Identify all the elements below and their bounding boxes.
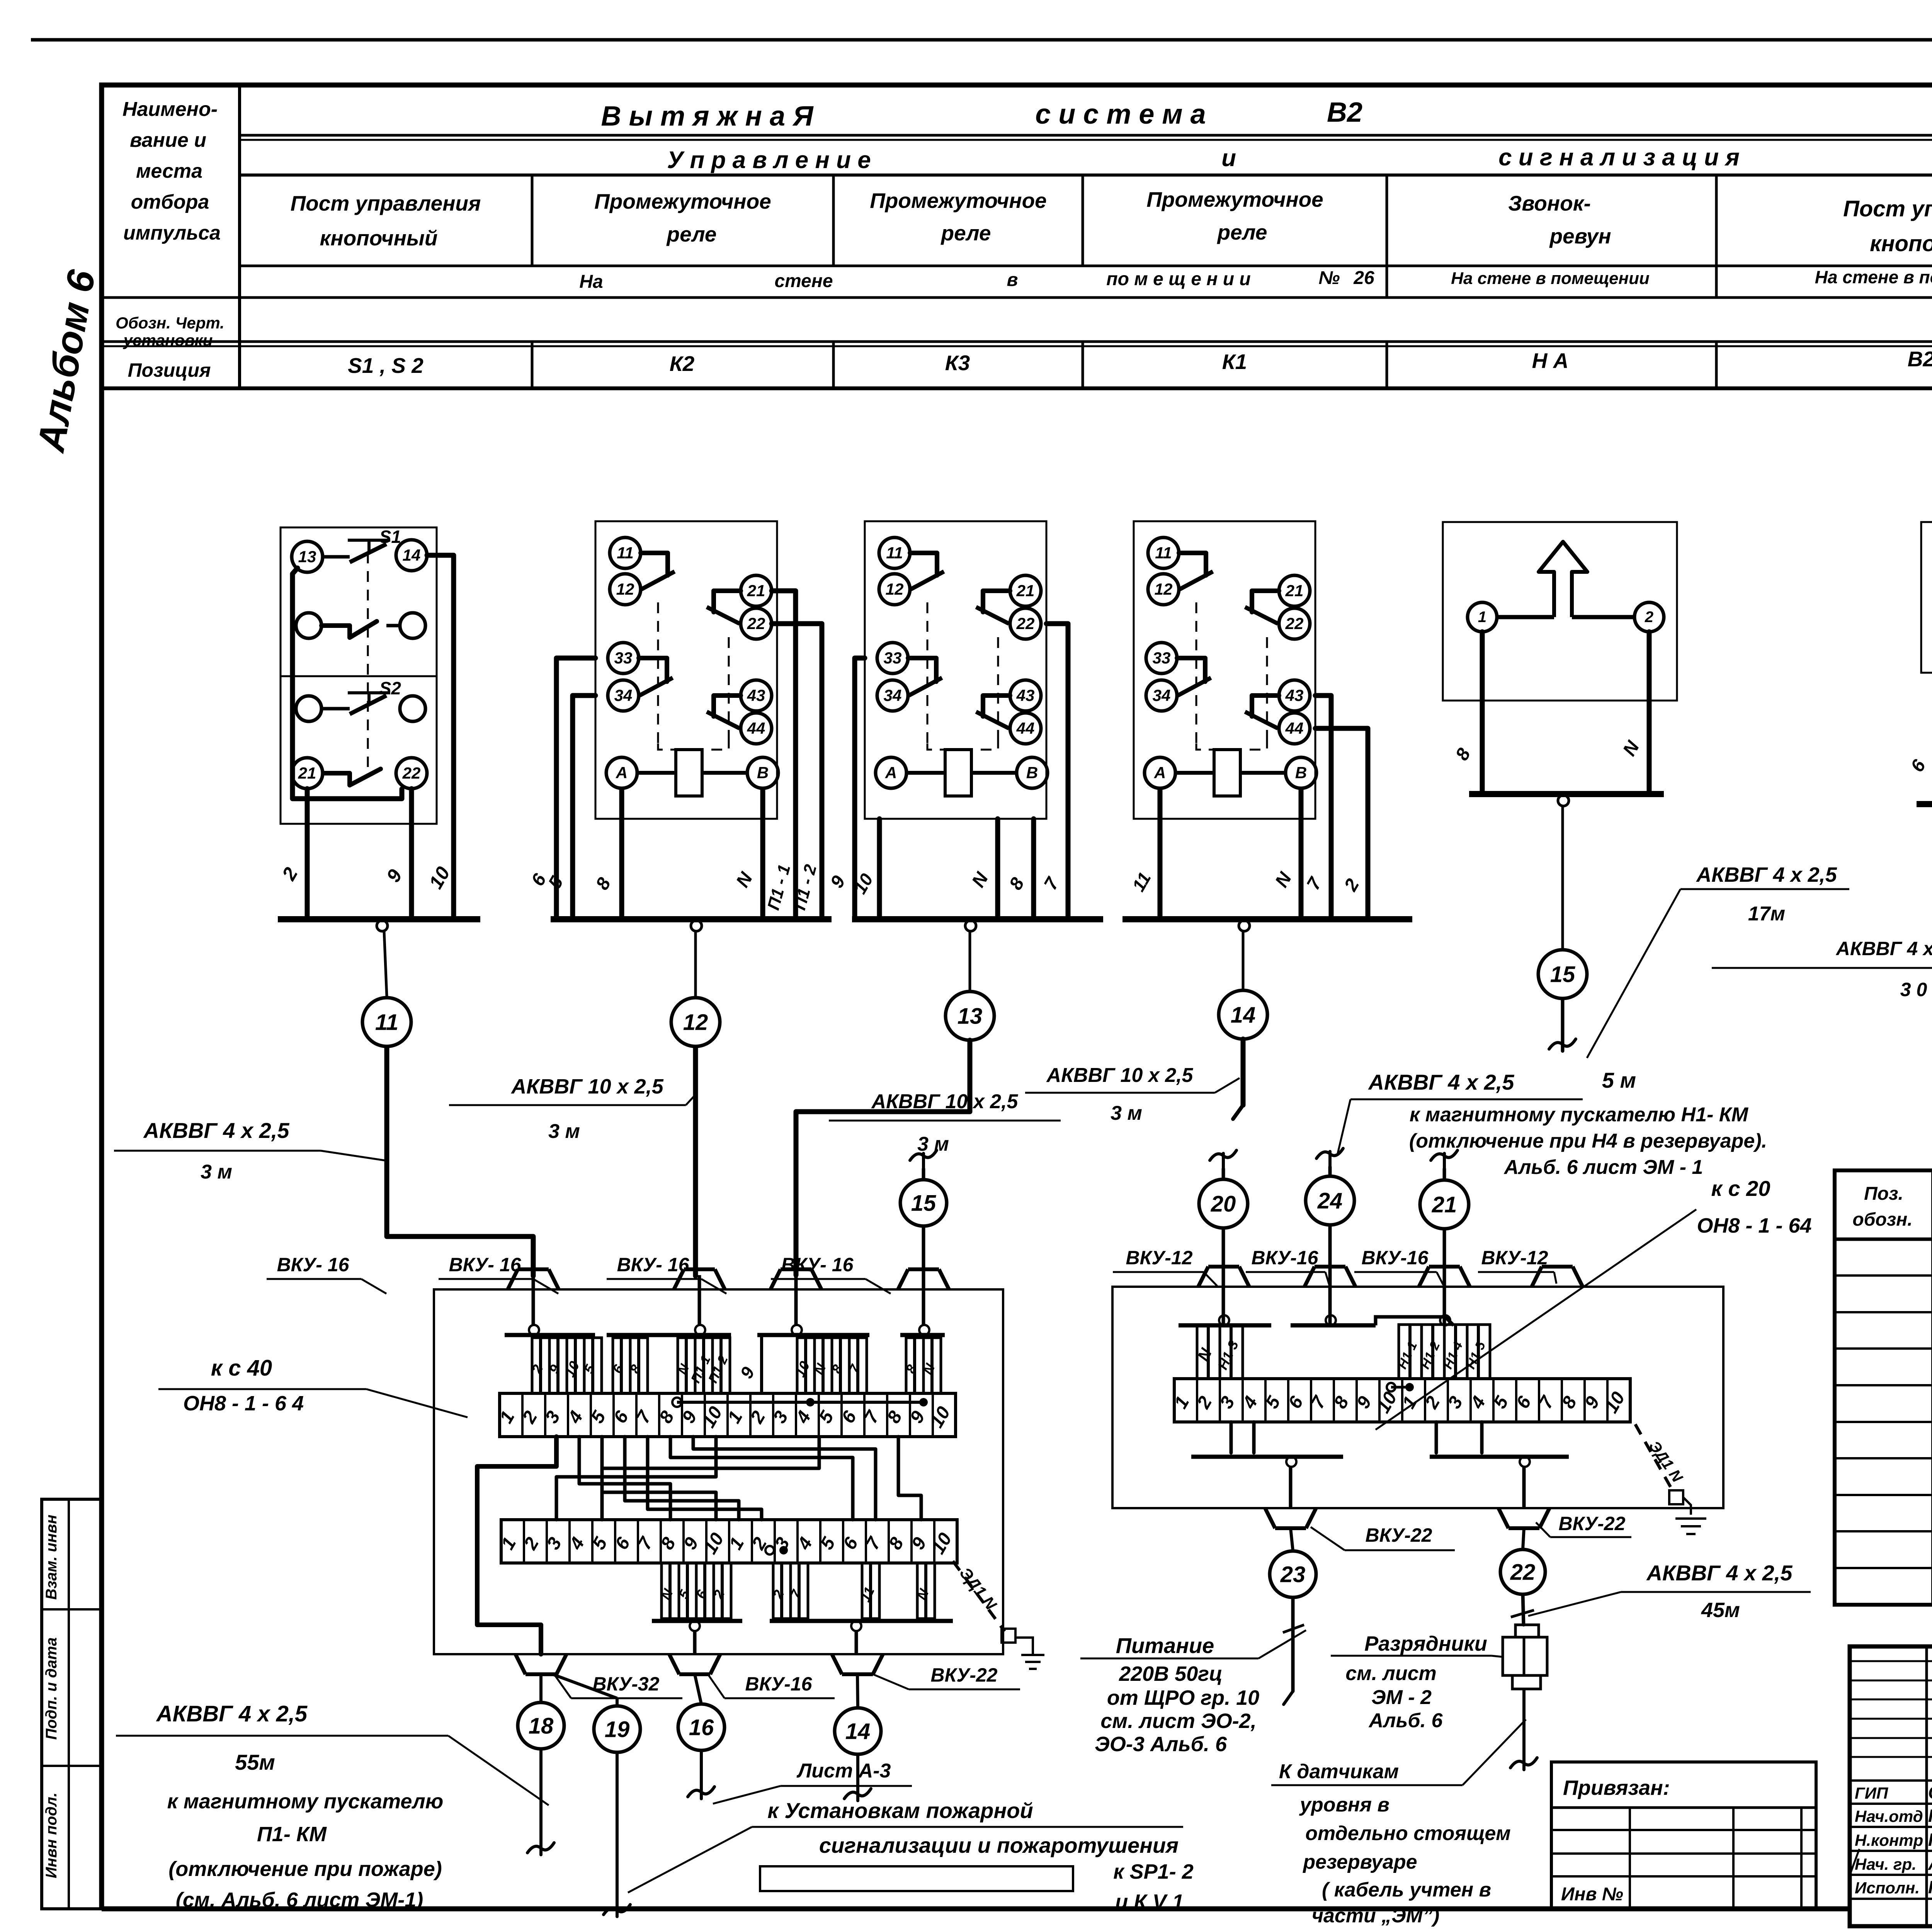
- svg-text:Разрядники: Разрядники: [1364, 1632, 1487, 1655]
- svg-text:АКВВГ 10 х 2,5: АКВВГ 10 х 2,5: [1046, 1064, 1194, 1087]
- svg-text:по м е щ е н и и: по м е щ е н и и: [1106, 269, 1250, 289]
- svg-text:3 м: 3 м: [1111, 1102, 1142, 1124]
- busbar 3: [852, 916, 1103, 922]
- svg-text:220В 50гц: 220В 50гц: [1119, 1662, 1223, 1685]
- relay K2 box: [595, 521, 777, 819]
- svg-text:11: 11: [375, 1010, 398, 1035]
- jumper dots in strip2: [765, 1546, 774, 1554]
- cable 21 top circle: [1431, 1150, 1458, 1169]
- svg-text:сигнализации и пожаротушения: сигнализации и пожаротушения: [819, 1833, 1179, 1857]
- svg-text:Н А: Н А: [1532, 349, 1569, 372]
- svg-text:22: 22: [1510, 1560, 1536, 1585]
- svg-text:ГИП: ГИП: [1855, 1784, 1888, 1802]
- svg-text:На стене в помещении № 14: На стене в помещении № 14: [1815, 267, 1932, 287]
- cable circles 18,19 under VKU-32: [539, 1674, 543, 1702]
- svg-text:АКВВГ 4 х 2,5: АКВВГ 4 х 2,5: [1368, 1070, 1515, 1094]
- svg-text:к SP1- 2: к SP1- 2: [1113, 1860, 1193, 1883]
- svg-text:Поз.: Поз.: [1864, 1184, 1903, 1204]
- svg-text:К датчикам: К датчикам: [1279, 1760, 1399, 1783]
- svg-text:В: В: [1295, 764, 1307, 782]
- svg-text:Альб. 6: Альб. 6: [1368, 1709, 1443, 1732]
- svg-text:Нач. гр.: Нач. гр.: [1855, 1855, 1917, 1873]
- relay K3 box: [865, 521, 1046, 819]
- top table grid: [102, 386, 1932, 390]
- svg-text:20: 20: [1211, 1191, 1236, 1216]
- K3 wires to busbar: [855, 658, 865, 919]
- svg-text:22: 22: [402, 764, 421, 782]
- svg-text:А: А: [616, 764, 628, 782]
- cable 13 circle: [969, 931, 971, 992]
- KC40 bottom funnels: [515, 1654, 566, 1674]
- svg-text:АКВВГ 4 х 2,5: АКВВГ 4 х 2,5: [143, 1118, 290, 1143]
- svg-text:части „ЭМ”): части „ЭМ”): [1312, 1905, 1440, 1927]
- svg-text:реле: реле: [1217, 220, 1267, 244]
- svg-text:Позиция: Позиция: [128, 359, 211, 381]
- svg-text:ВКУ-12: ВКУ-12: [1126, 1247, 1193, 1269]
- KC20 dashed ground: [1635, 1424, 1673, 1492]
- svg-text:13: 13: [957, 1003, 983, 1029]
- KC40 top funnels (VKU-16 x4): [508, 1269, 559, 1289]
- KC20 bottom funnels: [1265, 1508, 1316, 1528]
- svg-text:Привязан:: Привязан:: [1563, 1776, 1670, 1799]
- svg-text:23: 23: [1280, 1562, 1306, 1587]
- svg-text:ВКУ-16: ВКУ-16: [1362, 1247, 1429, 1269]
- svg-text:21: 21: [747, 582, 765, 600]
- svg-text:АКВВГ 10 х 2,5: АКВВГ 10 х 2,5: [871, 1090, 1019, 1113]
- svg-text:отбора: отбора: [131, 191, 209, 213]
- svg-text:ВКУ- 16: ВКУ- 16: [449, 1254, 522, 1276]
- svg-text:В ы т я ж н а Я: В ы т я ж н а Я: [601, 101, 814, 132]
- svg-text:Питание: Питание: [1116, 1633, 1214, 1658]
- svg-text:АКВВГ 4 х 2,5: АКВВГ 4 х 2,5: [156, 1701, 308, 1726]
- svg-text:А: А: [1154, 764, 1166, 782]
- svg-text:Пост управления: Пост управления: [291, 191, 481, 215]
- cable 15 circle above KC40 funnel4: [910, 1150, 937, 1169]
- KC40 junction box: [434, 1289, 1003, 1654]
- parts list table: [1835, 1170, 1932, 1605]
- KC20 funnels: [1198, 1267, 1249, 1287]
- busbar 4: [1122, 916, 1412, 922]
- cable 23 circle: [1291, 1528, 1293, 1551]
- svg-text:с и с т е м а: с и с т е м а: [1035, 99, 1206, 130]
- cable 15 circle: [1561, 806, 1564, 950]
- svg-text:33: 33: [1153, 649, 1171, 667]
- svg-text:Инвн подл.: Инвн подл.: [43, 1793, 60, 1878]
- internal jumper wire: [293, 568, 402, 799]
- K2 wires to busbar: [556, 658, 595, 919]
- privyazan table: [1551, 1762, 1816, 1909]
- cable 20 top circle: [1210, 1150, 1236, 1169]
- svg-text:см. лист ЭО-2,: см. лист ЭО-2,: [1100, 1709, 1256, 1733]
- svg-text:установки: установки: [123, 331, 213, 349]
- svg-text:ВКУ-22: ВКУ-22: [1366, 1524, 1432, 1546]
- svg-text:ВКУ- 16: ВКУ- 16: [781, 1254, 854, 1276]
- svg-text:3 0 м: 3 0 м: [1900, 979, 1932, 1000]
- svg-text:43: 43: [747, 686, 765, 704]
- svg-text:№: №: [1318, 268, 1340, 288]
- busbar 1: [278, 916, 480, 922]
- svg-text:11: 11: [1155, 544, 1172, 562]
- svg-text:кнопочный: кнопочный: [320, 226, 438, 250]
- cable 13 wire to KC40: [796, 1040, 970, 1275]
- knot wires between strips: [477, 1437, 556, 1654]
- svg-text:( кабель учтен в: ( кабель учтен в: [1322, 1879, 1491, 1901]
- svg-text:18: 18: [529, 1713, 554, 1738]
- KC20 mini busbars: [1179, 1323, 1271, 1328]
- KC20 lower wires: [1230, 1422, 1233, 1453]
- S1 lower contact: [296, 613, 321, 638]
- svg-text:На: На: [579, 272, 603, 292]
- svg-text:14: 14: [1231, 1002, 1256, 1027]
- push-button station S1,S2 box: [281, 527, 437, 824]
- svg-text:обозн.: обозн.: [1852, 1209, 1912, 1230]
- svg-text:21: 21: [1285, 582, 1304, 600]
- svg-text:Промежуточное: Промежуточное: [870, 189, 1047, 213]
- title block: [1850, 1646, 1932, 1926]
- svg-text:стене: стене: [774, 271, 833, 291]
- svg-text:S1 , S 2: S1 , S 2: [348, 354, 423, 378]
- svg-text:ЭМ - 2: ЭМ - 2: [1371, 1686, 1432, 1709]
- relay K1 box: [1134, 521, 1315, 819]
- svg-text:Взам. инвн: Взам. инвн: [43, 1515, 60, 1600]
- tags below strip2: [662, 1563, 679, 1619]
- svg-text:П1- КМ: П1- КМ: [257, 1823, 327, 1846]
- svg-text:24: 24: [1317, 1188, 1343, 1213]
- svg-text:2: 2: [1645, 609, 1653, 626]
- svg-text:уровня в: уровня в: [1299, 1794, 1389, 1816]
- mini busbars above tags: [505, 1333, 595, 1337]
- left bottom strip: [42, 1499, 102, 1909]
- svg-text:44: 44: [1016, 719, 1035, 737]
- svg-text:места: места: [136, 160, 202, 182]
- wire 9: [409, 789, 414, 919]
- cable 11 circle: [384, 931, 387, 996]
- svg-text:3 м: 3 м: [917, 1133, 949, 1155]
- strip 1 (upper): [500, 1393, 956, 1437]
- svg-text:реле: реле: [940, 221, 991, 245]
- svg-text:45м: 45м: [1701, 1599, 1740, 1622]
- strip 2 (lower): [501, 1520, 957, 1563]
- svg-text:19: 19: [605, 1717, 630, 1742]
- svg-text:На стене в помещении: На стене в помещении: [1451, 269, 1650, 288]
- cable 24 circle: [1316, 1148, 1343, 1167]
- svg-text:Промежуточное: Промежуточное: [1146, 187, 1323, 211]
- bell (zvonok-revun) box: [1443, 522, 1677, 701]
- svg-text:34: 34: [1153, 686, 1171, 704]
- svg-text:отдельно стоящем: отдельно стоящем: [1305, 1822, 1510, 1845]
- svg-text:Самитов: Самитов: [1928, 1782, 1932, 1803]
- svg-text:S2: S2: [379, 678, 401, 698]
- svg-text:43: 43: [1285, 686, 1304, 704]
- svg-text:в: в: [1007, 270, 1018, 290]
- svg-text:5 м: 5 м: [1602, 1068, 1636, 1092]
- cable 22 circle: [1523, 1528, 1524, 1549]
- svg-text:3 м: 3 м: [201, 1161, 232, 1183]
- svg-text:21: 21: [1016, 582, 1035, 600]
- svg-text:ВКУ-16: ВКУ-16: [1252, 1247, 1319, 1269]
- tags above strip1: [532, 1338, 549, 1393]
- cable 11 wire to KC40: [387, 1048, 533, 1276]
- svg-text:и: и: [1221, 145, 1236, 172]
- svg-text:резервуаре: резервуаре: [1302, 1851, 1417, 1873]
- svg-text:от ЩРО гр. 10: от ЩРО гр. 10: [1107, 1686, 1259, 1709]
- switch S1: [292, 541, 323, 572]
- svg-text:К1: К1: [1222, 350, 1247, 374]
- svg-text:(отключение при Н4 в резер: (отключение при Н4 в резервуаре).: [1409, 1130, 1767, 1152]
- svg-text:21: 21: [1432, 1192, 1457, 1217]
- svg-text:55м: 55м: [235, 1750, 275, 1774]
- svg-text:11: 11: [617, 544, 634, 562]
- svg-text:22: 22: [1285, 614, 1304, 633]
- svg-text:АКВВГ 10 х 2,5: АКВВГ 10 х 2,5: [510, 1075, 663, 1098]
- svg-text:12: 12: [1155, 580, 1173, 598]
- svg-text:S1: S1: [379, 527, 401, 547]
- svg-text:В2 - S3: В2 - S3: [1908, 347, 1932, 371]
- cable 12 circle: [694, 931, 697, 996]
- svg-text:к с 40: к с 40: [211, 1355, 272, 1381]
- jumper dots KC20 strip: [1387, 1383, 1395, 1391]
- svg-text:Звонок-: Звонок-: [1508, 191, 1591, 215]
- svg-text:12: 12: [886, 580, 904, 598]
- KC20 tags above strip: [1197, 1325, 1220, 1379]
- svg-text:к Установкам пожарной: к Установкам пожарной: [767, 1798, 1033, 1823]
- svg-text:22: 22: [747, 614, 765, 633]
- svg-text:ОН8 - 1 - 64: ОН8 - 1 - 64: [1697, 1214, 1811, 1237]
- svg-text:(отключение при пожаре): (отключение при пожаре): [168, 1857, 442, 1881]
- svg-text:кнопочный: кнопочный: [1870, 231, 1932, 256]
- svg-text:К2: К2: [670, 352, 695, 376]
- svg-text:12: 12: [683, 1010, 708, 1035]
- svg-text:см. лист: см. лист: [1345, 1662, 1437, 1685]
- svg-text:33: 33: [884, 649, 902, 667]
- svg-text:14: 14: [845, 1719, 871, 1744]
- svg-text:16: 16: [689, 1715, 714, 1740]
- dashed ground from strip2 end: [953, 1561, 1005, 1631]
- svg-text:ВКУ-16: ВКУ-16: [745, 1673, 813, 1695]
- svg-text:вание и: вание и: [130, 129, 206, 151]
- svg-text:26: 26: [1353, 268, 1374, 288]
- svg-text:Инв №: Инв №: [1561, 1884, 1623, 1905]
- svg-text:В: В: [1026, 764, 1038, 782]
- svg-text:ЭО-3 Альб. 6: ЭО-3 Альб. 6: [1095, 1733, 1227, 1756]
- svg-text:44: 44: [747, 719, 765, 737]
- svg-text:ВКУ-12: ВКУ-12: [1481, 1247, 1548, 1269]
- svg-text:АКВВГ 4 х 2,5: АКВВГ 4 х 2,5: [1696, 863, 1837, 886]
- svg-text:43: 43: [1016, 686, 1035, 704]
- svg-text:15: 15: [1550, 962, 1575, 987]
- funnel wires into busbars: [532, 1275, 535, 1325]
- svg-text:21: 21: [298, 764, 316, 782]
- svg-text:Альб. 6 лист ЭМ - 1: Альб. 6 лист ЭМ - 1: [1503, 1156, 1703, 1179]
- svg-text:Герасимова: Герасимова: [1928, 1877, 1932, 1897]
- svg-text:3 м: 3 м: [548, 1120, 580, 1143]
- wire 10: [427, 555, 454, 919]
- svg-text:1: 1: [1478, 609, 1486, 626]
- svg-text:Наимено-: Наимено-: [122, 98, 218, 121]
- svg-text:ревун: ревун: [1549, 224, 1611, 248]
- svg-text:и К V 1: и К V 1: [1115, 1890, 1184, 1913]
- svg-text:к магнитному пускателю: к магнитному пускателю: [167, 1790, 444, 1813]
- svg-text:В: В: [757, 764, 769, 782]
- svg-text:15: 15: [911, 1190, 936, 1216]
- bell symbol: [1539, 542, 1587, 617]
- svg-text:В2: В2: [1327, 97, 1362, 128]
- svg-text:44: 44: [1285, 719, 1304, 737]
- svg-text:ВКУ-22: ВКУ-22: [931, 1664, 998, 1686]
- svg-text:ВКУ- 16: ВКУ- 16: [617, 1254, 690, 1276]
- svg-text:Обозн. Черт.: Обозн. Черт.: [116, 314, 224, 332]
- svg-text:Промежуточное: Промежуточное: [594, 189, 771, 213]
- svg-text:12: 12: [616, 580, 634, 598]
- svg-text:А: А: [885, 764, 897, 782]
- busbar B2-S3: [1917, 801, 1932, 807]
- svg-text:34: 34: [884, 686, 902, 704]
- mini busbars below strip2: [652, 1619, 742, 1623]
- jumper in strip1: [677, 1401, 923, 1404]
- svg-text:17м: 17м: [1748, 903, 1785, 925]
- svg-text:импульса: импульса: [123, 222, 221, 244]
- svg-text:ВКУ- 16: ВКУ- 16: [277, 1254, 350, 1276]
- switch box B2-S3: [1921, 522, 1932, 673]
- svg-text:11: 11: [886, 544, 903, 562]
- svg-text:Антохина: Антохина: [1928, 1854, 1932, 1874]
- cable 12 wire to KC40: [693, 1048, 698, 1276]
- svg-text:(см. Альб. 6 лист ЭМ-1): (см. Альб. 6 лист ЭМ-1): [176, 1888, 423, 1912]
- svg-text:Лист А-3: Лист А-3: [796, 1760, 891, 1782]
- svg-text:34: 34: [614, 686, 633, 704]
- svg-text:с и г н а л и з а ц и я: с и г н а л и з а ц и я: [1498, 144, 1740, 171]
- svg-text:Н.контр: Н.контр: [1855, 1831, 1923, 1849]
- KC20 junction box: [1112, 1287, 1723, 1508]
- svg-text:Козлов: Козлов: [1928, 1806, 1932, 1826]
- svg-text:14: 14: [403, 546, 421, 564]
- cable 14 circle: [1242, 931, 1245, 990]
- switch S2: [296, 696, 321, 721]
- cable circle 16: [695, 1674, 701, 1704]
- svg-text:К3: К3: [945, 351, 970, 375]
- arrester: [1515, 1625, 1539, 1637]
- svg-text:Нач.отд: Нач.отд: [1855, 1807, 1923, 1825]
- svg-text:АКВВГ 4 х 2,5: АКВВГ 4 х 2,5: [1835, 938, 1932, 959]
- KC20 strip: [1174, 1379, 1630, 1422]
- svg-text:к с 20: к с 20: [1711, 1176, 1770, 1201]
- svg-text:АКВВГ 4 х 2,5: АКВВГ 4 х 2,5: [1646, 1561, 1793, 1585]
- top rule: [31, 38, 1932, 42]
- svg-text:Козлов: Козлов: [1928, 1830, 1932, 1850]
- svg-text:У п р а в л е н и е: У п р а в л е н и е: [667, 147, 871, 173]
- wire 2: [305, 789, 310, 919]
- svg-text:к магнитному пускателю Н1-: к магнитному пускателю Н1- КМ: [1410, 1104, 1749, 1126]
- svg-text:ОН8 - 1 - 6 4: ОН8 - 1 - 6 4: [183, 1392, 304, 1415]
- svg-text:Подп. и дата: Подп. и дата: [43, 1638, 60, 1740]
- K1 wires to busbar: [1158, 789, 1163, 919]
- busbar 5: [1469, 791, 1664, 797]
- svg-text:13: 13: [298, 548, 316, 566]
- svg-text:реле: реле: [666, 222, 717, 246]
- svg-text:22: 22: [1016, 614, 1035, 633]
- svg-text:ВКУ-22: ВКУ-22: [1559, 1513, 1626, 1534]
- svg-text:Пост управления: Пост управления: [1843, 196, 1932, 221]
- svg-text:33: 33: [614, 649, 633, 667]
- bell wires to busbar: [1480, 632, 1485, 794]
- svg-text:Исполн.: Исполн.: [1855, 1879, 1920, 1897]
- busbar 2: [551, 916, 832, 922]
- cable circle 14 bottom: [857, 1674, 858, 1708]
- cable 14 wire with arrow end: [1241, 1039, 1246, 1105]
